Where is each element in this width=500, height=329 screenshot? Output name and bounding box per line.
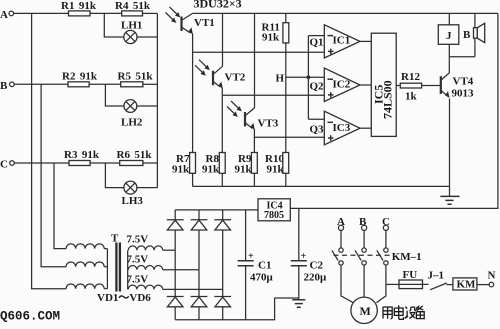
svg-text:+: + bbox=[248, 251, 254, 262]
contactor KM-1 contact A bbox=[332, 230, 353, 302]
wire J B parallel junction bbox=[449, 56, 475, 58]
label electrical equipment bbox=[383, 305, 424, 319]
wire VT1 emitter to IC1 plus bbox=[193, 34, 325, 153]
lamp LH1 bbox=[121, 20, 142, 44]
wire KM to N bbox=[477, 284, 489, 286]
svg-text:+: + bbox=[301, 251, 307, 262]
wire lamp2 branch bbox=[105, 84, 124, 106]
wire IC3 output bbox=[360, 127, 371, 129]
svg-text:Q606.COM: Q606.COM bbox=[0, 310, 60, 324]
svg-text:J: J bbox=[446, 30, 452, 42]
resistor R5 bbox=[118, 71, 154, 87]
wire R3 to R6 bbox=[90, 162, 120, 164]
svg-text:R2 91k: R2 91k bbox=[62, 71, 98, 83]
svg-text:KM–1: KM–1 bbox=[392, 251, 422, 263]
terminal A (load side) bbox=[337, 216, 345, 230]
svg-text:470μ: 470μ bbox=[250, 272, 274, 284]
svg-text:N: N bbox=[488, 270, 496, 282]
diode VD1 bbox=[167, 210, 184, 250]
node H bbox=[276, 73, 325, 85]
contactor KM-1 contact C bbox=[376, 230, 388, 302]
wire phase A feeder bbox=[32, 13, 67, 288]
svg-text:91k: 91k bbox=[235, 164, 253, 176]
svg-text:FU: FU bbox=[403, 269, 418, 281]
svg-text:B: B bbox=[0, 80, 8, 92]
svg-text:C: C bbox=[0, 159, 8, 171]
svg-text:B: B bbox=[463, 29, 471, 41]
wire secondary 1 to bridge column 1 bbox=[163, 249, 176, 251]
wire primary star point bbox=[106, 249, 108, 289]
wire lamp common bus bbox=[156, 13, 158, 187]
svg-text:1k: 1k bbox=[405, 91, 418, 103]
svg-text:LH3: LH3 bbox=[122, 195, 144, 207]
svg-text:91k: 91k bbox=[267, 164, 285, 176]
wire comparator minus bus bbox=[308, 36, 324, 120]
resistor R10 bbox=[265, 153, 289, 187]
op-amp IC1 bbox=[324, 25, 360, 58]
wire B row bbox=[14, 83, 68, 85]
resistor R6 bbox=[117, 149, 153, 166]
phototransistor VT1 bbox=[166, 7, 215, 35]
wire lamp2 to bus bbox=[137, 105, 158, 107]
svg-text:R12: R12 bbox=[401, 71, 420, 83]
svg-text:R5 51k: R5 51k bbox=[118, 71, 154, 83]
svg-text:IC3: IC3 bbox=[333, 122, 351, 134]
resistor R8 bbox=[202, 153, 225, 187]
wire +5V top rail bbox=[193, 12, 498, 14]
wire secondary 3 to bridge column 3 bbox=[163, 288, 223, 290]
relay coil J bbox=[438, 13, 459, 56]
svg-text:7805: 7805 bbox=[264, 210, 284, 221]
svg-text:3DU32×3: 3DU32×3 bbox=[194, 0, 242, 11]
svg-text:VT2: VT2 bbox=[225, 72, 246, 84]
transistor VT4 9013 bbox=[441, 73, 474, 100]
svg-text:220μ: 220μ bbox=[304, 272, 328, 284]
svg-text:J–1: J–1 bbox=[428, 270, 445, 282]
resistor R7 bbox=[172, 153, 196, 187]
svg-text:A: A bbox=[0, 9, 8, 21]
wire C phase to FU bbox=[386, 283, 399, 285]
terminal A bbox=[0, 9, 14, 21]
lamp LH3 bbox=[122, 181, 144, 207]
terminal C bbox=[0, 159, 14, 171]
svg-text:9013: 9013 bbox=[452, 88, 475, 100]
svg-text:7.5V: 7.5V bbox=[127, 273, 149, 285]
svg-text:91k: 91k bbox=[202, 164, 220, 176]
wire bridge positive rail bbox=[175, 209, 258, 211]
svg-text:C2: C2 bbox=[310, 260, 324, 272]
svg-text:Q1: Q1 bbox=[310, 37, 324, 49]
wire R5 to bus bbox=[143, 83, 158, 85]
svg-text:IC1: IC1 bbox=[333, 35, 351, 47]
capacitor C1 bbox=[238, 210, 274, 320]
ground rail bbox=[193, 185, 450, 187]
phototransistor VT3 bbox=[227, 101, 279, 130]
wire lamp1 branch bbox=[104, 13, 124, 37]
capacitor C2 bbox=[291, 208, 327, 299]
svg-text:91k: 91k bbox=[172, 164, 190, 176]
wire VT2 collector to rail bbox=[222, 13, 224, 66]
resistor R11 bbox=[262, 13, 289, 152]
wire VT3 emitter to IC3 plus bbox=[254, 129, 324, 153]
svg-text:91k: 91k bbox=[262, 32, 280, 44]
diode VD5 bbox=[191, 270, 208, 320]
resistor R12 bbox=[396, 71, 440, 103]
svg-text:C1: C1 bbox=[258, 260, 271, 272]
wire lamp3 to bus bbox=[137, 187, 158, 189]
diode VD2 bbox=[191, 210, 208, 270]
IC5 74LS00 bbox=[371, 33, 396, 136]
diode VD6 bbox=[214, 289, 231, 319]
resistor R2 bbox=[62, 71, 98, 87]
svg-text:LH2: LH2 bbox=[121, 117, 143, 129]
wire phase C feeder bbox=[54, 163, 66, 249]
phototransistor VT2 bbox=[195, 60, 246, 89]
resistor R9 bbox=[235, 153, 258, 187]
wire lamp3 branch bbox=[105, 163, 124, 188]
speaker B bbox=[463, 13, 485, 56]
transformer T primary winding 2 (B phase) bbox=[66, 262, 107, 267]
wire R6 to bus bbox=[143, 162, 158, 164]
contactor KM-1 contact B bbox=[355, 230, 366, 297]
svg-text:KM: KM bbox=[457, 279, 477, 291]
terminal B bbox=[0, 80, 14, 92]
transformer T primary winding 3 (A phase) bbox=[66, 284, 107, 289]
IC4 7805 regulator bbox=[258, 199, 290, 221]
terminal N bbox=[488, 270, 496, 287]
wire C row bbox=[14, 162, 69, 164]
svg-text:R3 91k: R3 91k bbox=[64, 149, 100, 161]
transformer T primary winding 1 (C phase) bbox=[66, 244, 107, 249]
svg-text:Q2: Q2 bbox=[310, 81, 325, 93]
wire A row bbox=[14, 12, 69, 14]
wire R4 to common bus bbox=[143, 12, 158, 14]
wire VT2 emitter to IC2 plus bbox=[222, 88, 324, 153]
resistor R4 bbox=[115, 0, 151, 16]
svg-text:R1 91k: R1 91k bbox=[61, 0, 97, 12]
wire VT3 collector to rail bbox=[254, 13, 256, 108]
fuse FU bbox=[399, 269, 429, 289]
svg-text:LH1: LH1 bbox=[121, 20, 142, 32]
diode VD4 bbox=[167, 250, 184, 320]
op-amp IC2 bbox=[324, 68, 360, 102]
svg-text:VT3: VT3 bbox=[258, 118, 279, 130]
svg-text:VT1: VT1 bbox=[194, 17, 215, 29]
lamp LH2 bbox=[121, 100, 143, 129]
wire 5V output line bbox=[290, 13, 498, 208]
svg-text:R4 51k: R4 51k bbox=[115, 0, 151, 12]
resistor R1 bbox=[61, 0, 97, 16]
svg-text:Q3: Q3 bbox=[310, 124, 325, 136]
svg-text:R6 51k: R6 51k bbox=[117, 149, 153, 161]
ground symbol right bbox=[440, 99, 459, 205]
wire lamp1 to bus bbox=[137, 36, 157, 38]
switch J-1 bbox=[428, 270, 453, 290]
dashed linkage KM-1 bbox=[334, 251, 422, 263]
transformer secondary winding 3 7.5V bbox=[127, 273, 163, 289]
svg-text:H: H bbox=[276, 73, 285, 85]
wire phase B feeder bbox=[41, 84, 66, 266]
svg-text:74LS00: 74LS00 bbox=[381, 80, 395, 119]
op-amp IC3 bbox=[324, 111, 360, 145]
svg-text:VD1～VD6: VD1～VD6 bbox=[97, 292, 151, 304]
wire R1 to R4 bbox=[90, 12, 122, 14]
terminal C (load side) bbox=[382, 216, 390, 230]
svg-text:M: M bbox=[360, 304, 371, 318]
diode VD3 bbox=[214, 210, 231, 290]
ground under C2 bbox=[292, 300, 305, 308]
svg-text:IC2: IC2 bbox=[333, 79, 351, 91]
resistor R3 bbox=[64, 149, 100, 166]
transformer core T bbox=[111, 233, 120, 292]
wire IC2 output bbox=[360, 84, 371, 86]
svg-text:7.5V: 7.5V bbox=[127, 253, 149, 265]
wire secondary star point bbox=[127, 250, 129, 289]
wire bridge negative rail bbox=[175, 298, 299, 320]
transformer secondary winding 2 7.5V bbox=[127, 253, 163, 270]
wire IC1 output bbox=[360, 40, 371, 42]
svg-text:VT4: VT4 bbox=[453, 76, 474, 88]
wire R2 to R5 bbox=[89, 83, 121, 85]
wire VT4 collector bbox=[448, 57, 450, 73]
wire secondary 2 to bridge column 2 bbox=[163, 269, 199, 271]
transformer secondary winding 1 7.5V bbox=[127, 234, 163, 251]
terminal B (load side) bbox=[359, 216, 367, 230]
svg-text:T: T bbox=[111, 233, 119, 245]
svg-text:7.5V: 7.5V bbox=[127, 234, 149, 246]
motor M bbox=[351, 297, 377, 323]
contactor coil KM bbox=[453, 278, 477, 291]
